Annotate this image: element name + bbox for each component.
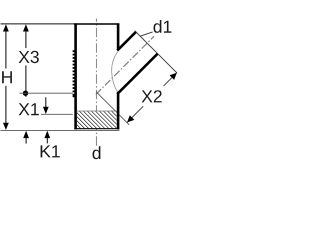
label X2 — [142, 90, 162, 102]
K1 arrow left stem — [25, 137, 27, 143]
hatch top boundary — [77, 110, 117, 112]
branch upper wall — [117, 32, 136, 51]
reference line A — [20, 92, 73, 94]
serration teeth on left edge — [73, 50, 75, 97]
X3 dimension top arrow — [23, 24, 29, 31]
H stem upper — [5, 31, 7, 69]
K1 outside arrow right — [44, 131, 50, 138]
X2 dimension line upper segment — [164, 73, 177, 86]
branch end face / X2 upper extension line — [135, 31, 177, 73]
H dimension bottom arrow — [3, 123, 9, 130]
hatch block (socket cross-section) — [77, 111, 117, 128]
X3 stem upper — [25, 31, 27, 48]
X2 lower extension line — [96, 92, 129, 125]
label X1 — [19, 103, 39, 115]
H dimension top arrow — [3, 24, 9, 31]
X3 stem lower — [25, 66, 27, 97]
bottom extension line C — [1, 129, 120, 131]
label d — [93, 146, 101, 159]
branch lower wall — [117, 54, 157, 94]
label H — [2, 71, 12, 83]
X2 dimension line lower segment — [127, 106, 143, 122]
pipe bottom edge — [74, 128, 119, 130]
K1 outside arrow left — [23, 131, 29, 138]
label K1 — [41, 145, 60, 157]
branch axis centerline (45 deg dash-dot) — [96, 36, 154, 94]
label X3 — [19, 51, 39, 63]
pipe top edge — [74, 23, 119, 25]
main centerline (vertical dash-dot) — [96, 19, 98, 147]
pipe right edge upper — [117, 23, 120, 49]
X2 arrowhead lower — [127, 115, 134, 122]
X1 down arrow — [43, 107, 49, 114]
reference line B — [41, 113, 73, 115]
pipe left edge — [74, 23, 77, 129]
X1 arrow stem — [45, 97, 47, 107]
H stem lower — [5, 86, 7, 124]
d1 leader line — [140, 32, 152, 36]
top extension line — [1, 23, 75, 25]
label d1 — [154, 20, 172, 33]
pipe right edge lower — [117, 93, 120, 130]
X2 arrowhead upper — [170, 73, 177, 80]
junction arc inside pipe — [112, 52, 118, 93]
X3 end dot — [23, 91, 28, 96]
K1 arrow right stem — [46, 137, 48, 143]
